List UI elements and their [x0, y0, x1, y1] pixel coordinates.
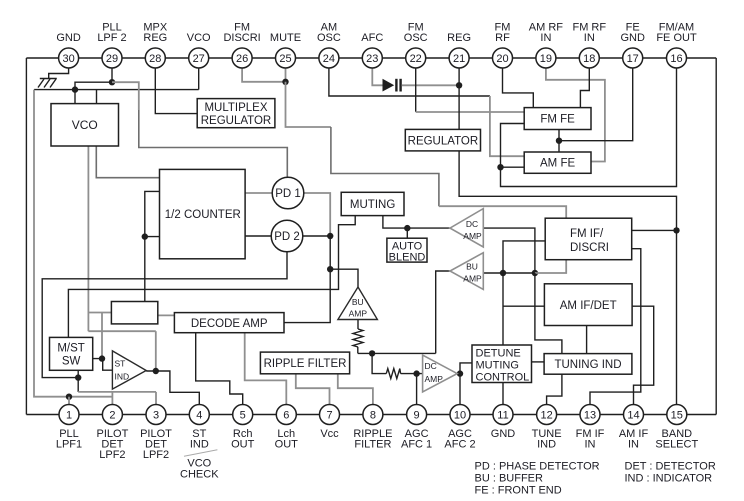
svg-text:16: 16: [670, 53, 682, 65]
dc amp A4: [423, 355, 458, 392]
node bus junction: [369, 350, 375, 356]
wire node B to VCO top: [74, 90, 76, 104]
pin 22 FM OSC: [404, 22, 428, 69]
svg-text:REG: REG: [143, 32, 167, 44]
wire node B to tuning ind top: [535, 273, 562, 354]
pin 21 REG: [447, 32, 471, 68]
svg-text:SW: SW: [62, 356, 81, 368]
svg-text:18: 18: [583, 53, 595, 65]
wire gray counter to PD1: [245, 192, 272, 194]
node R2 junction: [413, 370, 419, 376]
wire left frame: [25, 58, 27, 415]
svg-text:FM IF/: FM IF/: [570, 228, 604, 240]
FM FE U4: [524, 108, 591, 130]
detune muting control U15: [472, 345, 532, 384]
svg-text:LPF1: LPF1: [56, 438, 82, 450]
pin 16 FM/AM FE OUT: [656, 22, 697, 69]
pin 23 AFC: [361, 32, 383, 68]
svg-text:RF: RF: [495, 32, 510, 44]
tuning ind U16: [544, 354, 632, 375]
AM FE U5: [524, 152, 591, 173]
svg-text:DISCRI: DISCRI: [570, 242, 609, 254]
wire node A to pin 11: [502, 273, 504, 405]
m/st switch U13: [50, 337, 93, 370]
svg-text:TUNING IND: TUNING IND: [554, 359, 621, 371]
svg-text:VCO: VCO: [187, 32, 211, 44]
pin 9 AGC AFC 1: [401, 405, 432, 451]
svg-text:IN: IN: [585, 438, 596, 450]
pin 19 AM RF IN: [529, 22, 564, 69]
wire R1 bottom lead: [357, 347, 359, 353]
node PD junction b: [327, 266, 333, 272]
node pin25/26 junction: [282, 79, 288, 85]
wire FE OUT branch to AM FE: [501, 166, 525, 168]
pin 8 RIPPLE FILTER: [353, 405, 392, 451]
svg-text:CHECK: CHECK: [180, 469, 219, 481]
wire PD net to BU amp apex: [330, 269, 358, 287]
wire DC2 out node: [457, 373, 462, 375]
svg-text:CONTROL: CONTROL: [476, 372, 530, 384]
wire BU amp out chain: [483, 272, 535, 274]
svg-text:MUTE: MUTE: [270, 32, 301, 44]
wire R2 left to bus: [372, 353, 386, 373]
svg-text:Vcc: Vcc: [320, 428, 339, 440]
wire bottom pin bus: [26, 414, 716, 416]
svg-text:28: 28: [149, 53, 161, 65]
svg-text:IND: IND: [537, 438, 556, 450]
svg-text:AMP: AMP: [349, 309, 368, 319]
pin 1 PLL LPF1: [56, 405, 82, 451]
wire top pin bus: [26, 57, 716, 59]
wire pin 19 to AM FE right: [546, 66, 605, 162]
wire VCO input bus y89.6: [34, 89, 199, 91]
svg-text:5: 5: [240, 410, 246, 422]
wire AM IF bottom to tuning ind: [586, 326, 588, 354]
wire pin 26 lead: [242, 66, 285, 82]
svg-text:IND : INDICATOR: IND : INDICATOR: [625, 473, 713, 485]
wire pin 21 regulator net: [458, 66, 460, 129]
wire AM IF right to pin 14: [632, 306, 654, 405]
svg-text:OUT: OUT: [275, 438, 299, 450]
wire VCO to counter: [96, 146, 159, 178]
wire node A to FM IF left: [503, 241, 545, 273]
svg-text:OUT: OUT: [231, 438, 255, 450]
svg-text:REGULATOR: REGULATOR: [201, 115, 272, 127]
svg-text:DC: DC: [466, 219, 478, 229]
node pilot junction: [75, 374, 81, 380]
svg-text:13: 13: [584, 410, 596, 422]
wire gray pilot row pins 2-3: [78, 391, 156, 393]
wire gray vco loop branch to box: [88, 312, 111, 314]
node FM IF right junction: [673, 227, 679, 233]
node st sw junction: [99, 355, 105, 361]
pin 24 AM OSC: [317, 22, 341, 69]
pin 12 TUNE IND: [532, 405, 562, 451]
wire pin 25 lead: [285, 66, 287, 82]
svg-text:GND: GND: [620, 32, 645, 44]
wire regulator to band line: [459, 151, 676, 405]
wire gray pin 3 lead: [155, 392, 157, 405]
wire junction down to pilot row: [77, 378, 79, 392]
node FE link junction: [556, 138, 562, 144]
pin 10 AGC AFC 2: [444, 405, 475, 451]
pin 27 VCO: [187, 32, 211, 68]
wire R1 top lead: [357, 320, 359, 330]
wire gray branch to st ind out: [155, 331, 157, 371]
wire pin 29 lead: [111, 66, 113, 82]
svg-text:AM IF/DET: AM IF/DET: [560, 300, 617, 312]
wire junction to M/ST SW bottom: [77, 370, 79, 377]
svg-text:24: 24: [323, 53, 335, 65]
svg-text:BU: BU: [466, 262, 478, 272]
svg-text:4: 4: [196, 410, 202, 422]
wire gray PD1 out: [304, 193, 331, 236]
svg-text:LPF2: LPF2: [143, 449, 169, 461]
svg-text:30: 30: [62, 53, 74, 65]
svg-text:FM FE: FM FE: [540, 114, 575, 126]
svg-text:M/ST: M/ST: [57, 343, 84, 355]
svg-text:2: 2: [109, 410, 115, 422]
pilot filter U14: [111, 302, 157, 324]
wire gray pin24 to AM FE: [490, 96, 524, 156]
svg-text:15: 15: [671, 410, 683, 422]
wire branch to AM IF left: [503, 305, 545, 307]
wire muting to M/ST SW: [68, 216, 355, 338]
svg-text:BU : BUFFER: BU : BUFFER: [475, 473, 544, 485]
svg-text:PD 2: PD 2: [274, 231, 300, 243]
svg-text:IN: IN: [628, 438, 639, 450]
wire gray mute path to FM IF top: [286, 82, 331, 127]
pin 18 FM RF IN: [572, 22, 606, 69]
wire pin 22 lead: [415, 66, 417, 112]
wire detune to tuning ind: [532, 361, 545, 363]
1/2 counter U6: [160, 169, 246, 258]
svg-text:DISCRI: DISCRI: [223, 32, 260, 44]
varactor D1: [383, 79, 402, 92]
svg-text:21: 21: [453, 53, 465, 65]
svg-text:AM FE: AM FE: [540, 158, 575, 170]
phase detector PD2: [271, 220, 303, 252]
auto blend U8: [387, 238, 427, 263]
wire gray to FM IF bottom: [535, 260, 566, 273]
wire right frame: [715, 58, 717, 415]
svg-text:11: 11: [497, 410, 508, 422]
wire counter to decode chain vertical: [144, 237, 146, 302]
ground: [38, 79, 57, 88]
wire counter feedback loop: [145, 191, 160, 236]
svg-text:FILTER: FILTER: [354, 438, 391, 450]
pin 11 GND: [491, 405, 516, 441]
wire PD2 out: [303, 235, 331, 237]
wire tuning ind to pin 12: [547, 374, 562, 405]
wire PD net to decode amp: [284, 269, 330, 322]
wire pin 20 to FM FE top: [503, 66, 534, 108]
svg-text:IN: IN: [540, 32, 551, 44]
svg-text:BLEND: BLEND: [389, 251, 426, 263]
st ind comparator A5: [112, 351, 146, 389]
svg-text:DECODE AMP: DECODE AMP: [191, 318, 268, 330]
pin 30 GND: [56, 32, 81, 68]
svg-text:IN: IN: [584, 32, 595, 44]
node DC2 out junction: [457, 370, 463, 376]
wire second VCO top feed: [96, 90, 98, 104]
decode amp U11: [174, 313, 284, 333]
svg-text:AFC 1: AFC 1: [401, 438, 432, 450]
resistor R2 horizontal: [386, 369, 400, 379]
svg-text:6: 6: [283, 410, 289, 422]
node st ind out junction: [153, 368, 159, 374]
buffer A3: [338, 287, 378, 320]
pin 17 FE GND: [620, 22, 645, 69]
svg-text:IND: IND: [190, 438, 209, 450]
wire FM FE to AM FE link: [558, 130, 560, 153]
FM IF discri U9: [545, 218, 632, 260]
wire pin 28 to multiplex regulator: [155, 66, 197, 114]
svg-text:LPF 2: LPF 2: [97, 32, 126, 44]
multiplex regulator U2: [197, 99, 275, 128]
svg-text:OSC: OSC: [404, 32, 428, 44]
wire R2 node to pin 9: [416, 374, 418, 405]
pin 29 PLL LPF 2: [97, 22, 126, 69]
wire varactor to pin21 node: [402, 84, 459, 86]
AM IF det U10: [544, 284, 632, 326]
wire pin 30 to ground: [49, 66, 69, 79]
wire pin 17 to FE link: [559, 66, 633, 141]
svg-text:BU: BU: [352, 297, 364, 307]
wire gray pilot filter to decode amp: [158, 314, 175, 316]
pin 4 ST IND / VCO CHECK: [180, 405, 219, 481]
pin 26 FM DISCRI: [223, 22, 260, 69]
wire FM IF right to band line: [632, 229, 677, 231]
pin 3 PILOT DET LPF2: [140, 405, 172, 461]
svg-text:AFC: AFC: [361, 32, 383, 44]
svg-text:MULTIPLEX: MULTIPLEX: [204, 102, 267, 114]
svg-text:IND: IND: [115, 372, 130, 382]
wire FM IF to pin 13: [590, 249, 641, 405]
pin 2 PILOT DET LPF2: [97, 405, 129, 461]
svg-text:FE : FRONT END: FE : FRONT END: [475, 485, 562, 497]
pin 25 MUTE: [270, 32, 301, 68]
node pin1 junction: [66, 394, 72, 400]
svg-text:29: 29: [106, 53, 118, 65]
wire counter to PD2: [245, 235, 271, 237]
wire pin 16 FE OUT net: [501, 66, 677, 187]
svg-text:REGULATOR: REGULATOR: [408, 135, 479, 147]
svg-text:7: 7: [326, 410, 332, 422]
svg-text:OSC: OSC: [317, 32, 341, 44]
svg-text:17: 17: [627, 53, 639, 65]
pin 28 MPX REG: [143, 22, 168, 69]
pin 13 FM IF IN: [576, 405, 605, 451]
phase detector PD1: [272, 177, 304, 209]
svg-text:AFC 2: AFC 2: [444, 438, 475, 450]
svg-text:8: 8: [370, 410, 376, 422]
svg-text:GND: GND: [56, 32, 81, 44]
node AFC junction: [456, 82, 462, 88]
node FE OUT junction: [497, 164, 503, 170]
pin 6 Lch OUT: [275, 405, 299, 451]
wire level bus y353: [358, 352, 436, 354]
wire pin 18 to FM FE top: [580, 66, 589, 108]
svg-text:GND: GND: [491, 428, 516, 440]
svg-text:27: 27: [193, 53, 205, 65]
wire DC2 out to detune: [460, 363, 472, 374]
pin 20 FM RF: [493, 22, 513, 69]
svg-text:25: 25: [279, 53, 291, 65]
wire DC amp out to node B2: [483, 228, 535, 273]
wire gray node A to PD1 top: [112, 82, 139, 110]
wire M/ST SW to ST IND: [93, 359, 113, 371]
wire pin29 loop to node B: [75, 82, 112, 89]
svg-text:23: 23: [366, 53, 378, 65]
svg-text:DC: DC: [425, 361, 437, 371]
svg-text:14: 14: [627, 410, 639, 422]
svg-text:20: 20: [496, 53, 508, 65]
wire gray decode amp to pin 6: [245, 333, 287, 405]
wire pin 24 lead: [329, 66, 490, 96]
wire gray pin 1 lead: [68, 397, 70, 405]
wire gray FM OSC to FM FE: [416, 111, 525, 113]
node auto blend junction: [404, 225, 410, 231]
wire decode amp to pin 5: [196, 333, 243, 405]
node B junction: [72, 86, 78, 92]
node PD junction a: [327, 233, 333, 239]
wire PD net down: [329, 236, 331, 269]
svg-text:1: 1: [66, 410, 72, 422]
svg-text:FE OUT: FE OUT: [656, 32, 697, 44]
svg-text:SELECT: SELECT: [655, 438, 698, 450]
svg-text:MUTING: MUTING: [350, 199, 395, 211]
node counter feedback junction: [142, 233, 148, 239]
pin 7 Vcc: [320, 405, 340, 441]
muting U7: [341, 192, 404, 215]
svg-text:DETUNE: DETUNE: [476, 348, 521, 360]
wire PD2 bottom net: [42, 251, 287, 377]
VCO U1: [51, 104, 119, 146]
svg-text:AMP: AMP: [463, 231, 482, 241]
svg-text:19: 19: [540, 53, 552, 65]
wire gray loop bus y331: [88, 330, 155, 332]
wire junction to auto blend: [406, 228, 408, 238]
svg-text:26: 26: [236, 53, 248, 65]
svg-text:ST: ST: [115, 359, 126, 369]
wire bus to BU2 apex: [436, 271, 450, 353]
wire DC2 out to pin 10: [459, 374, 461, 405]
wire gray ripple filter to pin 7: [296, 374, 330, 405]
svg-text:3: 3: [153, 410, 159, 422]
svg-text:LPF2: LPF2: [99, 449, 125, 461]
dc amp A1: [450, 209, 483, 247]
resistor R1 vertical: [353, 329, 363, 347]
svg-text:AMP: AMP: [463, 274, 482, 284]
svg-text:10: 10: [454, 410, 466, 422]
svg-text:9: 9: [414, 410, 420, 422]
pin 14 AM IF IN: [619, 405, 649, 451]
svg-text:22: 22: [410, 53, 422, 65]
svg-text:PD 1: PD 1: [275, 188, 301, 200]
svg-text:12: 12: [540, 410, 552, 422]
wire gray branch to st sw node: [101, 313, 103, 359]
svg-text:PD : PHASE DETECTOR: PD : PHASE DETECTOR: [475, 461, 600, 473]
node BU out junction A: [500, 270, 506, 276]
wire pin 23 lead: [372, 66, 382, 85]
node BU out junction B: [532, 270, 538, 276]
wire ST IND out to pin 4: [146, 371, 199, 405]
wire gray left PLL loop: [34, 90, 112, 397]
node A junction pin29: [109, 79, 115, 85]
wire pin 27 lead: [198, 66, 200, 90]
pin 5 Rch OUT: [231, 405, 255, 451]
wire gray VCO bottom loop: [87, 146, 89, 331]
pin 15 BAND SELECT: [655, 405, 698, 451]
svg-text:VCO: VCO: [72, 118, 98, 132]
wire gray pin 2 lead: [111, 392, 113, 405]
buffer A2: [450, 253, 483, 290]
svg-text:AMP: AMP: [425, 374, 444, 384]
svg-text:REG: REG: [447, 32, 471, 44]
wire muting to DC amp: [383, 216, 450, 229]
svg-text:RIPPLE FILTER: RIPPLE FILTER: [264, 358, 347, 370]
svg-text:1/2 COUNTER: 1/2 COUNTER: [165, 209, 241, 221]
svg-text:MUTING: MUTING: [476, 360, 519, 372]
regulator U3: [405, 129, 480, 151]
svg-text:DET : DETECTOR: DET : DETECTOR: [625, 461, 716, 473]
wire resistor R2 right to DC2: [401, 373, 423, 375]
wire gray ripple filter to pin 8: [338, 374, 373, 405]
ripple filter U12: [260, 352, 349, 374]
